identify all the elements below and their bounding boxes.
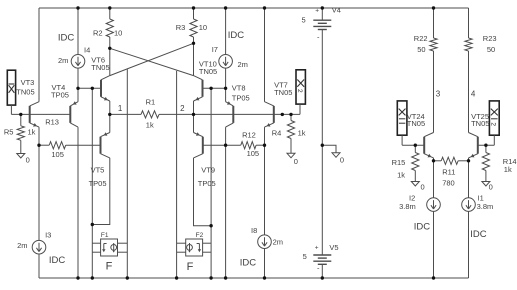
svg-text:1k: 1k bbox=[298, 129, 306, 138]
svg-text:F: F bbox=[187, 261, 194, 273]
svg-text:1k: 1k bbox=[28, 128, 36, 137]
svg-text:4: 4 bbox=[471, 89, 476, 98]
svg-text:F: F bbox=[106, 261, 113, 273]
svg-text:I3: I3 bbox=[45, 230, 51, 239]
svg-text:R12: R12 bbox=[242, 131, 256, 140]
svg-text:3.8m: 3.8m bbox=[477, 202, 494, 211]
svg-text:0: 0 bbox=[26, 155, 30, 164]
svg-text:TN05: TN05 bbox=[407, 119, 425, 128]
svg-text:50: 50 bbox=[487, 45, 495, 54]
svg-text:IDC: IDC bbox=[414, 222, 431, 233]
svg-text:TP05: TP05 bbox=[89, 179, 107, 188]
svg-text:TP05: TP05 bbox=[198, 179, 216, 188]
svg-text:R13: R13 bbox=[45, 118, 59, 127]
svg-text:TN05: TN05 bbox=[199, 67, 217, 76]
svg-text:VT9: VT9 bbox=[201, 166, 215, 175]
svg-text:5: 5 bbox=[302, 16, 306, 25]
svg-text:0: 0 bbox=[489, 182, 493, 191]
svg-text:F2: F2 bbox=[196, 232, 204, 239]
svg-text:F1: F1 bbox=[101, 232, 109, 239]
svg-text:IDC: IDC bbox=[228, 30, 245, 41]
svg-text:I4: I4 bbox=[84, 45, 90, 54]
svg-text:10: 10 bbox=[114, 28, 122, 37]
svg-text:V4: V4 bbox=[332, 5, 341, 14]
svg-text:2m: 2m bbox=[273, 237, 283, 246]
svg-text:2m: 2m bbox=[238, 60, 248, 69]
svg-text:+: + bbox=[315, 8, 319, 15]
svg-text:0: 0 bbox=[294, 157, 298, 166]
svg-text:780: 780 bbox=[442, 178, 455, 187]
svg-text:VT5: VT5 bbox=[91, 166, 105, 175]
svg-text:TN05: TN05 bbox=[91, 63, 109, 72]
svg-text:TN05: TN05 bbox=[16, 88, 34, 97]
svg-text:IDC: IDC bbox=[58, 33, 75, 44]
svg-text:2m: 2m bbox=[58, 56, 68, 65]
svg-text:TP05: TP05 bbox=[51, 90, 69, 99]
svg-text:R5: R5 bbox=[4, 128, 14, 137]
svg-text:0: 0 bbox=[340, 155, 344, 164]
svg-text:VT3: VT3 bbox=[21, 78, 35, 87]
svg-text:+: + bbox=[315, 245, 319, 252]
svg-text:TN05: TN05 bbox=[274, 88, 292, 97]
svg-text:2: 2 bbox=[490, 122, 497, 126]
svg-text:R4: R4 bbox=[272, 129, 282, 138]
svg-text:I8: I8 bbox=[251, 226, 257, 235]
svg-text:1k: 1k bbox=[146, 121, 154, 130]
svg-text:V5: V5 bbox=[329, 243, 338, 252]
svg-text:1k: 1k bbox=[397, 170, 405, 179]
svg-text:2: 2 bbox=[180, 104, 185, 113]
svg-text:IDC: IDC bbox=[240, 257, 256, 268]
svg-text:1k: 1k bbox=[504, 165, 512, 174]
svg-text:2m: 2m bbox=[17, 241, 27, 250]
svg-text:105: 105 bbox=[51, 150, 64, 159]
svg-text:I7: I7 bbox=[212, 45, 218, 54]
svg-text:105: 105 bbox=[247, 149, 260, 158]
svg-text:IDC: IDC bbox=[49, 255, 66, 266]
svg-text:R23: R23 bbox=[483, 34, 497, 43]
svg-text:5: 5 bbox=[303, 252, 307, 261]
svg-text:TN05: TN05 bbox=[471, 119, 489, 128]
svg-text:3: 3 bbox=[436, 89, 441, 98]
svg-text:R22: R22 bbox=[414, 34, 428, 43]
svg-text:R15: R15 bbox=[392, 158, 406, 167]
svg-text:R2: R2 bbox=[93, 28, 103, 37]
svg-text:3.8m: 3.8m bbox=[399, 202, 416, 211]
svg-text:R1: R1 bbox=[146, 97, 156, 106]
svg-text:10: 10 bbox=[199, 23, 207, 32]
svg-text:1: 1 bbox=[118, 104, 123, 113]
svg-text:0: 0 bbox=[421, 182, 425, 191]
svg-text:50: 50 bbox=[417, 45, 425, 54]
svg-text:TP05: TP05 bbox=[232, 93, 250, 102]
svg-text:IDC: IDC bbox=[470, 229, 487, 240]
svg-text:R3: R3 bbox=[176, 23, 186, 32]
svg-text:VT8: VT8 bbox=[232, 83, 246, 92]
svg-text:2: 2 bbox=[296, 89, 303, 93]
svg-text:R11: R11 bbox=[442, 167, 455, 176]
